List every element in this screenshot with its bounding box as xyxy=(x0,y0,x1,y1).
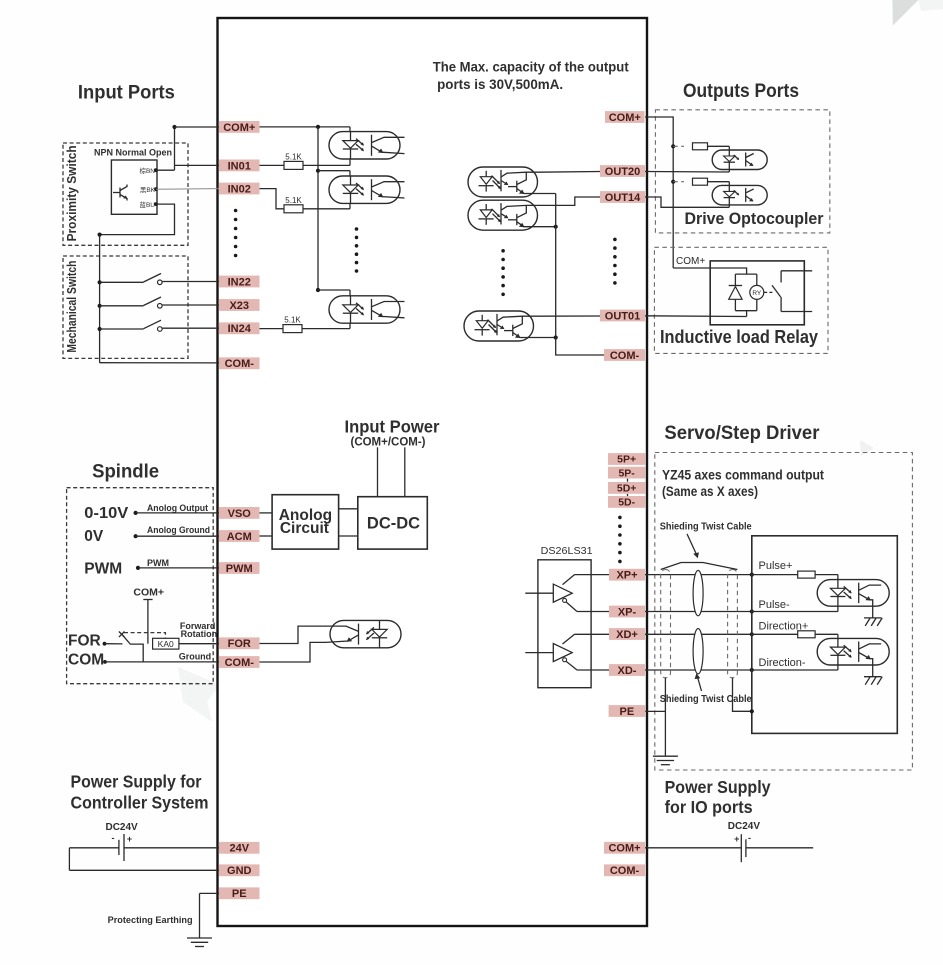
arrow to cable xyxy=(687,534,699,558)
wire opto4 emitter to bus xyxy=(538,193,556,195)
battery B1 DC24V xyxy=(112,833,133,861)
svg-text:ACM: ACM xyxy=(227,531,252,543)
svg-text:Anolog Output: Anolog Output xyxy=(147,503,208,513)
svg-text:Ground: Ground xyxy=(179,652,212,662)
wire cathode opto8 xyxy=(728,205,730,207)
pin PE right xyxy=(609,705,646,718)
wire VSO xyxy=(136,512,219,514)
wire XD- xyxy=(577,669,752,671)
battery B2 DC24V xyxy=(734,833,751,862)
wire input power left xyxy=(377,447,379,496)
dashed linkage KA0 xyxy=(124,633,165,639)
svg-text:24V: 24V xyxy=(229,843,249,855)
pin OUT01 xyxy=(600,310,645,323)
wire ACM to analog xyxy=(259,535,272,537)
svg-text:VSO: VSO xyxy=(228,508,252,520)
optocoupler U5 (OUT14 darlington) xyxy=(468,200,538,230)
wire anode opto1 xyxy=(349,127,351,132)
svg-text:Pulse+: Pulse+ xyxy=(759,560,793,572)
wire bus to switch IN22 xyxy=(100,281,144,283)
junction shield to driver xyxy=(750,709,754,713)
wire emitter to chassis gnd 2 xyxy=(872,665,874,677)
wire COM- spindle xyxy=(105,661,219,663)
switch S1 (IN22) xyxy=(144,274,163,285)
svg-text:PE: PE xyxy=(232,888,247,900)
svg-text:COM+: COM+ xyxy=(676,256,705,267)
svg-text:Direction-: Direction- xyxy=(759,657,806,669)
pin OUT20 xyxy=(600,165,645,178)
wire shield drain left xyxy=(664,678,666,756)
wire opto6 collector to OUT01 xyxy=(534,315,601,317)
wire IN01 to resistor xyxy=(259,164,284,166)
svg-text:5.1K: 5.1K xyxy=(285,196,302,205)
wire GND xyxy=(69,869,219,871)
wire emitter to chassis gnd xyxy=(872,606,874,618)
wire PE drop xyxy=(199,893,201,937)
svg-text:COM: COM xyxy=(68,652,104,669)
junction bus opto2 xyxy=(316,169,320,173)
svg-text:(Same as X axes): (Same as X axes) xyxy=(662,484,758,499)
wire anode opto3 xyxy=(349,290,351,296)
wire KA0 to FOR pin xyxy=(179,643,219,645)
wire switch to IN24 pin xyxy=(162,327,219,329)
svg-text:Controller System: Controller System xyxy=(71,793,209,813)
svg-text:5D+: 5D+ xyxy=(617,483,637,495)
wire COM- left xyxy=(100,362,219,364)
pin IN01 xyxy=(219,160,260,173)
svg-text:XD-: XD- xyxy=(618,665,637,677)
svg-text:COM+: COM+ xyxy=(609,112,641,124)
wire R4 to opto7 xyxy=(708,145,730,147)
wire switch to IN22 pin xyxy=(162,281,219,283)
wire Direction+ to R7 xyxy=(752,633,798,635)
wire 24V xyxy=(124,847,219,849)
pin COM+ right xyxy=(605,111,645,124)
wire COM+ bar xyxy=(143,599,152,601)
pin 5P+ xyxy=(608,453,645,466)
svg-text:GND: GND xyxy=(227,865,252,877)
optocoupler U12 (pulse) xyxy=(817,580,889,607)
svg-text:KA0: KA0 xyxy=(158,639,174,649)
svg-text:Proximity Switch: Proximity Switch xyxy=(64,145,79,241)
wire analog-dcdc top xyxy=(339,508,358,510)
svg-text:The Max. capacity of the outpu: The Max. capacity of the output xyxy=(433,59,629,75)
pin IN02 xyxy=(219,183,260,196)
wire left bus vertical xyxy=(99,235,101,363)
wire PWM xyxy=(138,567,219,569)
svg-text:5.1K: 5.1K xyxy=(285,152,302,161)
optocoupler U4 (OUT20 darlington) xyxy=(468,167,538,197)
resistor R7 xyxy=(798,631,815,638)
relay coil KA0 xyxy=(153,638,179,649)
wire supply left vertical xyxy=(68,848,70,871)
pin COM- spindle xyxy=(219,656,260,669)
wire contact bottom out xyxy=(781,311,812,313)
wire COM+ outside xyxy=(175,126,220,128)
svg-text:COM+: COM+ xyxy=(608,843,640,855)
wire anode opto8 xyxy=(728,182,730,186)
junction Direction+ xyxy=(750,632,754,636)
pin VSO xyxy=(219,507,260,520)
wire IN24 to resistor xyxy=(259,328,283,330)
wire opto6 emitter to bus xyxy=(534,337,556,339)
svg-text:Shieding Twist Cable: Shieding Twist Cable xyxy=(660,694,752,705)
ellipsis dots input optos xyxy=(355,227,359,273)
wire OUT01 to relay xyxy=(645,315,747,318)
svg-text:0-10V: 0-10V xyxy=(84,505,129,522)
svg-text:COM+: COM+ xyxy=(133,587,164,599)
svg-text:YZ45 axes command output: YZ45 axes command output xyxy=(662,468,824,483)
analog circuit box xyxy=(272,495,339,549)
wire PE out xyxy=(645,710,665,712)
pin XP- xyxy=(609,606,645,619)
optocoupler U1 (IN01) xyxy=(329,132,405,159)
wire BK to IN02 (thin) xyxy=(156,188,219,191)
pin IN24 xyxy=(219,322,260,335)
svg-text:FOR: FOR xyxy=(68,633,101,650)
optocoupler U2 (IN02) xyxy=(329,176,405,203)
pin 5D+ xyxy=(608,482,645,495)
svg-text:IN22: IN22 xyxy=(228,276,251,288)
cable shield left (dashed pill) xyxy=(661,570,671,678)
svg-text:5P-: 5P- xyxy=(618,467,635,479)
wire contact to COM- xyxy=(131,644,144,662)
wire OUT20 to opto7 xyxy=(645,171,729,174)
node 0V xyxy=(134,534,138,538)
resistor R4 xyxy=(693,143,708,150)
wire COM+ feed right xyxy=(645,117,673,268)
wire COM+ vertical bus xyxy=(317,127,319,290)
wire BN to COM+ riser xyxy=(156,169,175,171)
svg-text:XD+: XD+ xyxy=(616,629,638,641)
wire IN01 outside xyxy=(175,164,220,166)
node FOR terminal xyxy=(103,642,107,646)
pin PWM xyxy=(219,562,260,575)
svg-text:Power Supply for: Power Supply for xyxy=(71,772,202,792)
wire anode opto7 xyxy=(728,146,730,150)
svg-text:Input Ports: Input Ports xyxy=(78,83,175,104)
svg-text:0V: 0V xyxy=(84,528,104,545)
optocoupler U9 (FOR, mirrored) xyxy=(326,620,402,647)
wire contact top out xyxy=(781,270,812,272)
watermark triangle top right xyxy=(892,0,918,26)
resistor R3 5.1K xyxy=(283,316,302,333)
wire coil top connector xyxy=(735,273,756,275)
svg-text:Anolog Ground: Anolog Ground xyxy=(147,525,210,535)
svg-text:DS26LS31: DS26LS31 xyxy=(541,546,593,557)
twist ellipse pair 1 xyxy=(693,570,703,615)
pin XP+ xyxy=(609,569,645,582)
wire Direction- to opto11 xyxy=(752,669,838,671)
svg-text:DC24V: DC24V xyxy=(728,821,761,832)
svg-text:COM-: COM- xyxy=(225,657,255,669)
svg-text:PWM: PWM xyxy=(226,563,253,575)
wire cathode opto3 xyxy=(349,323,351,328)
wire cathode opto2 xyxy=(349,203,351,208)
servo dashed box xyxy=(655,453,913,771)
svg-text:Outputs Ports: Outputs Ports xyxy=(683,81,799,102)
svg-text:黑BK: 黑BK xyxy=(140,186,156,194)
pin COM+ left xyxy=(219,121,260,134)
wire coil bottom tap xyxy=(746,311,748,317)
wire bus to switch X23 xyxy=(100,305,144,307)
junction COM+ bus top xyxy=(316,125,320,129)
junction bus opto3 xyxy=(316,288,320,292)
wire COM+ riser xyxy=(174,127,176,170)
svg-text:Shieding Twist Cable: Shieding Twist Cable xyxy=(660,522,752,533)
optocoupler U8 (drive) xyxy=(712,185,767,205)
chassis ground pulse xyxy=(864,618,882,626)
dc-dc box xyxy=(358,497,428,549)
wire XP- xyxy=(577,611,752,613)
wire bus to anode opto2 xyxy=(318,170,350,172)
svg-text:IN24: IN24 xyxy=(228,323,252,335)
ellipsis dots inputs xyxy=(234,209,238,258)
junction feed R5 xyxy=(671,180,675,184)
svg-text:PE: PE xyxy=(620,706,635,718)
svg-text:Circuit: Circuit xyxy=(280,520,329,537)
svg-text:Rotation: Rotation xyxy=(181,629,218,639)
svg-text:Power Supply: Power Supply xyxy=(665,777,771,797)
pin COM- left xyxy=(219,357,260,370)
svg-text:IN01: IN01 xyxy=(228,160,251,172)
ellipsis dots servo pins xyxy=(618,516,622,564)
wire Pulse- to opto10 xyxy=(752,611,838,613)
node BU xyxy=(154,202,158,206)
tick between 5D+ and 5D- xyxy=(627,494,629,497)
pin PE left xyxy=(219,887,260,900)
node PWM xyxy=(136,566,140,570)
junction emitter bus 2 xyxy=(554,335,558,339)
controller main box xyxy=(218,18,648,926)
junction BU / left bus xyxy=(98,233,102,237)
relay contact switch xyxy=(764,271,781,312)
svg-text:COM-: COM- xyxy=(225,358,255,370)
svg-text:+: + xyxy=(127,834,132,844)
svg-text:RY: RY xyxy=(752,290,762,297)
svg-text:COM-: COM- xyxy=(610,350,640,362)
earth ground servo xyxy=(653,756,678,765)
optocoupler U6 (OUT01 darlington) xyxy=(464,311,534,341)
optocoupler U13 (direction) xyxy=(817,638,889,665)
wire COM+ supply xyxy=(645,847,741,849)
svg-text:OUT14: OUT14 xyxy=(605,192,641,204)
svg-text:OUT01: OUT01 xyxy=(605,310,640,322)
svg-text:OUT20: OUT20 xyxy=(605,166,640,178)
twist ellipse pair 2 xyxy=(693,629,703,674)
svg-text:COM-: COM- xyxy=(610,865,640,877)
ellipsis dots outputs xyxy=(613,238,617,285)
svg-text:-: - xyxy=(112,833,115,843)
wire COM+ drop to KA0 xyxy=(147,600,149,644)
svg-text:棕BN: 棕BN xyxy=(139,166,155,175)
svg-text:X23: X23 xyxy=(229,300,249,312)
pin 24V xyxy=(219,842,260,855)
wire input power right xyxy=(404,447,406,496)
svg-text:Drive Optocoupler: Drive Optocoupler xyxy=(685,210,825,228)
relay coil RY xyxy=(750,274,764,311)
svg-text:ports is 30V,500mA.: ports is 30V,500mA. xyxy=(437,76,563,92)
node BN xyxy=(154,168,158,172)
pin X23 xyxy=(219,299,260,312)
pin COM- supply xyxy=(604,864,645,877)
wire FOR stub xyxy=(105,643,123,645)
mechanical switch dashed box xyxy=(63,256,188,358)
cable shield right (dashed pill) xyxy=(728,570,738,678)
wire ACM xyxy=(136,535,219,537)
node BK xyxy=(154,187,158,191)
buffer U10 xyxy=(525,575,577,612)
svg-text:Servo/Step Driver: Servo/Step Driver xyxy=(664,423,820,444)
pin GND xyxy=(219,864,260,877)
svg-text:Inductive load Relay: Inductive load Relay xyxy=(660,327,818,347)
buffer U11 xyxy=(525,634,577,670)
svg-text:Pulse-: Pulse- xyxy=(759,599,791,611)
svg-text:for IO ports: for IO ports xyxy=(665,797,753,817)
inductive load relay dashed box xyxy=(654,247,828,353)
svg-text:IN02: IN02 xyxy=(228,183,251,195)
junction feed R4 xyxy=(671,144,675,148)
wire XP+ xyxy=(575,574,752,576)
pin 5D- xyxy=(608,496,645,509)
switch S3 (IN24) xyxy=(144,320,163,331)
wire OUT14 to opto8 xyxy=(645,197,729,207)
junction bus row X23 xyxy=(98,304,102,308)
switch KA0 contact xyxy=(119,632,131,645)
resistor R1 5.1K xyxy=(284,152,303,169)
svg-text:Mechanical Switch: Mechanical Switch xyxy=(64,261,79,353)
wire IN02 jog to resistor xyxy=(259,189,284,209)
ellipsis dots output optos xyxy=(501,249,505,296)
wire opto5 emitter to bus xyxy=(538,226,556,228)
chassis ground direction xyxy=(864,677,882,685)
wire bus to switch IN24 xyxy=(100,328,144,330)
drive optocoupler dashed box xyxy=(655,110,829,233)
svg-text:NPN Normal Open: NPN Normal Open xyxy=(94,148,172,158)
pin XD- xyxy=(609,664,645,677)
wire cathode opto10 xyxy=(837,606,839,611)
DS26LS31 box xyxy=(538,560,591,688)
wire dashed to R4 xyxy=(673,145,684,147)
svg-text:PWM: PWM xyxy=(84,561,122,578)
svg-text:XP+: XP+ xyxy=(616,570,637,582)
wire COM+ supply right xyxy=(746,847,813,849)
wire anode opto11 xyxy=(837,634,839,638)
svg-text:+: + xyxy=(734,834,739,844)
proximity sensor inner box xyxy=(111,160,157,214)
svg-text:(COM+/COM-): (COM+/COM-) xyxy=(351,437,426,449)
wire COM- to opto9 emitter xyxy=(259,642,326,662)
transistor Q1 (NPN in sensor) xyxy=(113,185,128,201)
proximity switch dashed box xyxy=(63,143,188,245)
junction COM+ left xyxy=(172,125,176,129)
resistor R6 xyxy=(798,571,815,578)
pin OUT14 xyxy=(600,191,645,204)
wire XD+ xyxy=(575,633,752,635)
svg-text:DC-DC: DC-DC xyxy=(367,515,420,533)
node 0-10V xyxy=(134,511,138,515)
svg-text:5.1K: 5.1K xyxy=(284,316,301,325)
resistor R5 xyxy=(693,178,708,185)
pin XD+ xyxy=(609,628,645,641)
pin COM+ supply xyxy=(604,842,645,855)
junction bus row IN22 xyxy=(98,280,102,284)
pin IN22 xyxy=(219,276,260,289)
wire COM+ to opto bus xyxy=(259,126,350,128)
wire resistor to opto2 xyxy=(303,208,350,210)
arrow to cable 2 xyxy=(695,673,702,691)
junction bus row IN24 xyxy=(98,327,102,331)
switch S2 (X23) xyxy=(144,297,163,308)
svg-text:FOR: FOR xyxy=(228,638,251,650)
pin FOR xyxy=(219,637,260,650)
wire PE left stub xyxy=(200,892,220,894)
cable tent xyxy=(661,563,738,570)
svg-text:Protecting Earthing: Protecting Earthing xyxy=(108,915,193,926)
junction Direction- xyxy=(750,668,754,672)
junction emitter bus xyxy=(554,225,558,229)
wire R5 to opto8 xyxy=(708,181,730,183)
pin 5P- xyxy=(608,467,645,480)
wire cathode opto7 xyxy=(728,170,730,173)
wire resistor to opto3 xyxy=(302,328,350,330)
wire switch to X23 pin xyxy=(162,304,219,306)
wire opto4 collector to OUT20 xyxy=(538,171,601,174)
svg-text:DC24V: DC24V xyxy=(105,822,138,833)
wire Pulse+ to R6 xyxy=(752,574,798,576)
pin ACM xyxy=(219,530,260,543)
svg-text:Spindle: Spindle xyxy=(92,462,159,483)
wire anode opto10 xyxy=(837,575,839,580)
svg-text:Input Power: Input Power xyxy=(345,417,440,437)
wire analog-dcdc bottom xyxy=(339,535,358,537)
wire emitter bus to COM- xyxy=(556,194,604,356)
relay outer box xyxy=(710,261,804,325)
wire anode opto2 xyxy=(349,171,351,176)
wire resistor to opto1 xyxy=(303,164,350,166)
svg-text:蓝BU: 蓝BU xyxy=(139,200,155,209)
spindle dashed box xyxy=(67,488,214,684)
watermark faint pin shape xyxy=(178,667,220,722)
optocoupler U7 (drive) xyxy=(712,150,767,170)
svg-text:COM+: COM+ xyxy=(223,122,255,134)
svg-text:5P+: 5P+ xyxy=(617,454,636,466)
pin COM- right xyxy=(604,349,645,362)
resistor R2 5.1K xyxy=(284,196,303,213)
svg-text:XP-: XP- xyxy=(618,606,637,618)
wire cathode opto1 xyxy=(349,159,351,165)
junction Pulse+ xyxy=(750,573,754,577)
wire cathode opto11 xyxy=(837,665,839,670)
servo driver box xyxy=(752,536,898,734)
wire coil bottom connector xyxy=(735,310,756,312)
wire R7 to opto11 xyxy=(815,633,838,635)
wire FOR to opto9 collector xyxy=(259,626,326,643)
wire bus to anode opto3 xyxy=(318,289,350,291)
wire BU down to left bus xyxy=(100,204,175,235)
wire opto5 collector to OUT14 xyxy=(538,197,601,205)
diode D1 (flyback) xyxy=(729,274,742,311)
wire dashed to R5 xyxy=(673,181,684,183)
wire VSO to analog xyxy=(259,512,272,514)
optocoupler U3 (IN24) xyxy=(329,296,405,323)
svg-text:-: - xyxy=(748,833,751,843)
svg-text:5D-: 5D- xyxy=(618,497,635,509)
svg-text:PWM: PWM xyxy=(147,558,169,568)
earth ground PE xyxy=(187,938,212,947)
wire R6 to opto10 xyxy=(815,574,838,576)
junction Pulse- xyxy=(750,609,754,613)
